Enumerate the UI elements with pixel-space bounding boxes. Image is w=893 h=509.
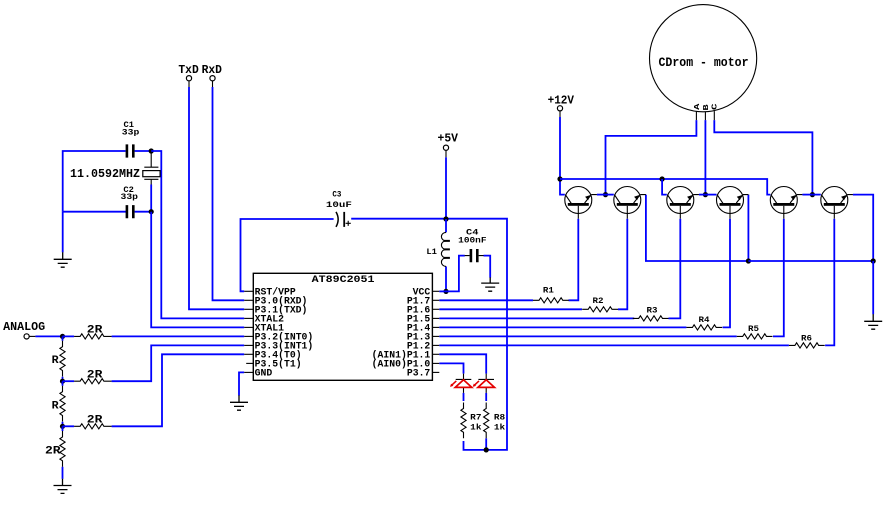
transistor Q4	[717, 187, 749, 219]
wire 2R3 to P3.4	[112, 354, 245, 426]
svg-text:+5V: +5V	[438, 133, 459, 146]
pin stub P1.6	[432, 308, 439, 310]
node ladder 2	[60, 379, 65, 384]
svg-text:33p: 33p	[121, 192, 139, 202]
resistor R7	[461, 403, 466, 439]
transistor Q5	[770, 187, 802, 219]
wire 2R2 lead left	[63, 380, 75, 382]
junction +12V rail	[557, 176, 562, 181]
wire crystal node to ground	[62, 212, 64, 253]
svg-text:R5: R5	[748, 324, 759, 334]
node ladder 1	[60, 334, 65, 339]
wire R8 bottom	[485, 438, 487, 450]
pin stub P3.3	[244, 344, 253, 346]
crystal Q1 11.0592MHZ	[143, 154, 160, 185]
svg-text:GND: GND	[255, 367, 273, 378]
wire LED2 to R8	[485, 393, 487, 401]
node phase C	[810, 192, 815, 197]
svg-text:A: A	[694, 103, 702, 110]
wire P1.4 to R4	[439, 326, 686, 328]
node phase B	[703, 192, 708, 197]
svg-text:2R: 2R	[87, 325, 103, 337]
capacitor C2	[127, 205, 133, 218]
svg-text:B: B	[703, 103, 711, 110]
wire L1 bottom lead to VCC	[445, 266, 447, 291]
pin stub P1.5	[432, 317, 439, 319]
junction T4 emitter common	[746, 258, 751, 263]
pin stub RST/VPP	[244, 290, 253, 292]
wire ladder 2R4 leads	[62, 426, 64, 479]
wire C3 right to +5V rail and down to R7 R8 bottom	[351, 219, 507, 450]
resistor R (ladder 1)	[60, 341, 65, 377]
svg-text:CDrom - motor: CDrom - motor	[659, 55, 749, 70]
wire common emitters right	[748, 260, 873, 262]
svg-text:L1: L1	[426, 247, 437, 257]
junction +5V rail	[443, 216, 448, 221]
junction VCC node	[443, 289, 448, 294]
svg-text:R6: R6	[801, 333, 812, 343]
ground (chip GND)	[230, 395, 248, 410]
resistor R3	[633, 316, 669, 321]
node X1 (crystal bottom junction)	[149, 209, 154, 214]
op-amp U1 AT89C2051 body	[253, 273, 432, 380]
svg-text:R7: R7	[470, 413, 481, 423]
wire C2 left lead	[63, 211, 126, 213]
wire P1.3 to R5	[439, 335, 736, 337]
wire motor phase B	[704, 120, 706, 195]
wire +12V rail to T5	[560, 179, 770, 195]
wire C1 right to node X2	[135, 150, 152, 152]
wire common to ground	[872, 261, 874, 314]
pin stub XTAL1	[244, 326, 253, 328]
terminal +5V	[443, 145, 448, 150]
pin stub P1.4	[432, 326, 439, 328]
resistor R2	[582, 307, 618, 312]
wire node C to T6 collector	[812, 194, 820, 196]
capacitor C3	[336, 212, 351, 227]
svg-text:R4: R4	[699, 315, 710, 325]
wire P1.2 to R6	[439, 344, 789, 346]
resistor R8	[484, 403, 489, 439]
capacitor C1	[127, 144, 133, 157]
pin C stub (motor)	[713, 111, 715, 120]
wire 2R1 leads P3.2 net	[63, 335, 245, 337]
wire R4 to T4 base	[723, 219, 730, 328]
svg-text:11.0592MHZ: 11.0592MHZ	[70, 167, 140, 181]
pin stub P3.4	[244, 353, 253, 355]
wire L1 top lead	[445, 219, 447, 232]
pin stub P3.0	[244, 299, 253, 301]
pin stub P1.0	[432, 362, 439, 364]
terminal ANALOG	[24, 334, 29, 339]
wire T3 emitter to node B	[699, 194, 706, 196]
wire T5 emitter to node C	[802, 194, 812, 196]
svg-text:2R: 2R	[87, 415, 103, 427]
terminal TxD	[186, 76, 191, 81]
wire +5V drop	[445, 157, 447, 219]
wire motor phase C	[714, 120, 812, 195]
junction rail T3 tap	[660, 176, 665, 181]
wire XTAL1 net	[151, 212, 244, 328]
pin stub P1.1	[432, 353, 439, 355]
LED D1	[450, 374, 472, 393]
transistor Q1	[565, 187, 597, 219]
capacitor C4	[465, 249, 484, 262]
svg-text:100nF: 100nF	[458, 235, 486, 245]
ground (C4)	[481, 277, 499, 291]
ground (crystal)	[54, 252, 72, 267]
wire GND pin to ground	[239, 372, 244, 395]
wire crystal bottom to node X1	[150, 185, 152, 212]
ground (emitters)	[864, 314, 882, 329]
junction R8 bottom	[484, 447, 489, 452]
pin stub VCC	[432, 290, 439, 292]
motor M1 CDrom	[650, 5, 757, 112]
wire P1.1 to LED2	[439, 354, 486, 373]
wire rail tap to T3 collector	[662, 179, 667, 195]
pin B stub (motor)	[704, 112, 706, 120]
resistor 2R (ladder bottom)	[60, 431, 65, 467]
resistor R5	[737, 334, 773, 339]
pin stub P3.2	[244, 335, 253, 337]
pin stub P3.5	[246, 362, 253, 364]
wire T1 emitter to node A	[597, 194, 606, 196]
wire +12V drop to T1 collector	[560, 117, 565, 195]
terminal +12V	[557, 106, 562, 111]
LED D2	[473, 374, 495, 393]
svg-text:TxD: TxD	[178, 64, 198, 77]
svg-text:R: R	[52, 355, 60, 367]
junction common right	[871, 258, 876, 263]
wire motor phase A	[606, 120, 697, 195]
wire ANALOG to node1	[35, 335, 62, 337]
svg-text:R2: R2	[593, 296, 604, 306]
svg-text:C3: C3	[332, 190, 341, 200]
transistor Q3	[667, 187, 699, 219]
pin stub P3.7	[432, 371, 439, 373]
svg-text:1k: 1k	[494, 423, 505, 433]
svg-text:+12V: +12V	[548, 94, 574, 107]
svg-text:10uF: 10uF	[326, 200, 352, 210]
wire RST to C3	[241, 219, 334, 291]
svg-text:33p: 33p	[122, 127, 140, 137]
node ladder 3	[60, 424, 65, 429]
wire C2 right lead	[135, 211, 152, 213]
resistor 2R (ladder top)	[74, 334, 112, 339]
wire P1.0 to LED1	[439, 363, 463, 373]
resistor R6	[789, 343, 825, 348]
wire C1 left to ground rail	[63, 151, 126, 212]
svg-text:R1: R1	[543, 286, 554, 296]
wire T4 emitter down	[747, 195, 749, 261]
resistor R (ladder 2)	[60, 386, 65, 422]
svg-text:AT89C2051: AT89C2051	[312, 274, 375, 285]
wire XTAL2 net	[151, 151, 244, 318]
resistor R4	[686, 325, 722, 330]
svg-text:R3: R3	[647, 306, 658, 316]
wire 2R2 to P3.3	[112, 345, 245, 381]
wire R2 to T2 base	[618, 219, 627, 310]
wire R3 to T3 base	[669, 219, 681, 319]
pin stub P1.3	[432, 335, 439, 337]
transistor Q6	[821, 187, 853, 219]
pin A stub (motor)	[695, 111, 697, 120]
wire T2 emitter down to common	[646, 195, 749, 261]
wire VCC pin to node	[439, 290, 446, 292]
node X2 (crystal top junction)	[149, 148, 154, 153]
node phase A	[603, 192, 608, 197]
transistor Q2	[614, 187, 646, 219]
pin stub P1.7	[432, 299, 439, 301]
wire R1 to T1 base	[569, 219, 579, 301]
pin stub P1.2	[432, 344, 439, 346]
wire P1.6 to R2	[439, 308, 582, 310]
wire node B to T4 collector	[705, 194, 716, 196]
svg-text:RxD: RxD	[202, 64, 222, 77]
ground (ladder)	[54, 479, 72, 494]
wire VCC node to C4	[446, 256, 465, 292]
wire 2R3 lead left	[63, 425, 75, 427]
terminal RxD	[210, 76, 215, 81]
wire TxD to P3.1	[189, 87, 244, 309]
inductor L1	[441, 232, 446, 266]
wire R6 to T6 base	[825, 219, 834, 346]
svg-text:P3.7: P3.7	[407, 367, 431, 378]
wire P1.5 to R3	[439, 317, 634, 319]
svg-text:2R: 2R	[87, 369, 103, 381]
pin stub P3.1	[244, 308, 253, 310]
pin stub GND	[244, 371, 253, 373]
pin stub XTAL2	[244, 317, 253, 319]
wire ladder R1a leads	[62, 336, 64, 381]
wire RxD to P3.0	[213, 87, 245, 300]
wire P1.7 to R1	[439, 299, 533, 301]
resistor 2R (ladder mid)	[74, 379, 112, 384]
wire T6 emitter over	[853, 195, 873, 261]
wire R5 to T5 base	[773, 219, 784, 337]
wire node A to T2 collector	[606, 194, 614, 196]
svg-text:C: C	[712, 103, 720, 110]
svg-text:2R: 2R	[45, 446, 61, 458]
wire ladder R2a leads	[62, 381, 64, 426]
svg-text:R8: R8	[494, 413, 505, 423]
svg-text:1k: 1k	[470, 423, 481, 433]
resistor R1	[533, 298, 569, 303]
wire C4 right to ground	[484, 256, 491, 278]
svg-text:ANALOG: ANALOG	[3, 321, 45, 334]
resistor 2R (ladder low)	[74, 424, 112, 429]
wire LED1 to R7	[463, 393, 465, 401]
svg-text:R: R	[52, 400, 60, 412]
